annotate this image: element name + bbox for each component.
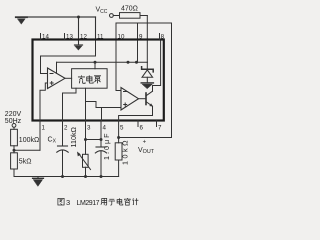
svg-text:4: 4 [103,125,107,132]
node pot ground [84,175,87,178]
node Vout [117,136,120,139]
wire pin11 riser [95,17,97,40]
wire pin1 down [39,121,41,151]
wire pin4 down [100,121,102,148]
svg-text:10kΩ: 10kΩ [121,138,130,165]
pin tick 14 [40,34,42,40]
char yu [109,199,115,205]
transistor Q1 [146,91,153,106]
node junction 100k/5k [13,149,16,152]
zener diode [142,62,154,82]
wire collector to pin8 inside right edge [153,41,161,91]
svg-text:50Hz: 50Hz [5,118,22,125]
svg-text:+: + [143,139,147,145]
node on supply wire [127,61,130,64]
resistor 10k [115,143,122,160]
wire pin9 internal drop [137,41,139,62]
pin tick 8 [159,34,161,40]
internal wire: pin11 drop to comparator minus line [41,41,96,74]
wire pin5 down [118,121,120,143]
ground arrow inside IC below pin 12 [75,45,83,50]
wire pin9 riser [137,23,139,40]
svg-text:14: 14 [42,34,49,41]
pin numbers top [42,34,165,41]
svg-text:5kΩ: 5kΩ [19,159,32,166]
svg-text:3: 3 [66,198,70,207]
svg-text:7: 7 [158,125,162,132]
op-amp U1 comparator [48,68,66,89]
svg-text:11: 11 [97,34,104,41]
resistor 470ohm [120,13,141,19]
pin tick 1..7 bottom: wires drawn separately; stub ticks for 6,7 [137,121,139,127]
resistor 100k [13,127,15,129]
wire emitter to pin5 [119,106,153,120]
ground arrow below zener [141,83,153,89]
wire pin4 riser [101,108,103,121]
node pin12 junction [77,16,80,19]
svg-text:12: 12 [80,34,87,41]
wire pin2 down to Cx [62,121,64,147]
text charge pump (CJK drawn) [78,75,101,83]
internal supply wire y62 [57,61,148,63]
wire outer right vertical [171,23,173,138]
svg-text:6: 6 [140,125,144,132]
svg-text:CX: CX [48,137,57,145]
capacitor 1.0uF [95,147,106,153]
svg-text:8: 8 [161,34,165,41]
char yong [101,198,107,205]
char rong [124,198,130,205]
wire link pins 3-4 [86,139,102,141]
node pin4 [100,138,103,141]
char chong [78,75,85,83]
svg-text:5: 5 [120,125,124,132]
charge pump box [72,69,108,89]
node Cx ground [61,175,64,178]
node 1.0uF ground [100,175,103,178]
pin numbers bottom [42,125,163,132]
ground symbol on rail [33,177,44,187]
node charge pump top [94,61,97,64]
ground rail [14,176,119,178]
char ji [132,198,138,205]
svg-text:1.0μF: 1.0μF [102,131,111,160]
wire 470 drop into IC to zener [146,16,148,63]
caption [58,198,138,207]
char dian2 [117,198,123,205]
pin tick 13 [64,34,66,40]
svg-text:110kΩ: 110kΩ [69,126,78,147]
wire pin12 down through IC edge [78,17,80,44]
svg-text:10: 10 [118,34,125,41]
220V source terminal [12,124,16,128]
svg-text:470Ω: 470Ω [121,6,138,13]
ground arrow top-left [16,17,27,24]
capacitor Cx [57,146,68,152]
wire Vout [119,137,172,139]
svg-text:13: 13 [66,34,73,41]
char dian [87,75,93,83]
node pin9 junction [135,61,138,64]
wire Vcc to resistor [113,15,119,17]
svg-text:100kΩ: 100kΩ [19,137,39,144]
Vcc terminal [110,14,114,18]
char tu [58,198,64,205]
char beng [94,76,101,84]
wire pin2 riser to charge pump bottom [63,88,77,120]
op-amp U2 [121,88,139,111]
svg-text:LM2917: LM2917 [77,200,100,207]
wire op-amp2 out to transistor base [139,98,147,100]
wire op-amp1 output to charge pump [65,77,72,79]
wire pin10 riser [115,23,117,40]
wire feedback top: pin10 to outer right [116,22,172,24]
wire pin10 drop to op-amp2 minus [116,41,121,91]
IC box LM2917 [33,40,164,121]
svg-text:3: 3 [87,125,91,132]
svg-text:1: 1 [42,125,46,132]
svg-text:9: 9 [139,34,143,41]
svg-text:2: 2 [64,125,68,132]
wire junction to pin1 [14,149,40,151]
wire resistor right to vertical drop [140,15,147,17]
wire top-left horizontal to pin 11 [21,16,96,18]
stub down to op-amp1 top [56,62,58,73]
wire pin1 riser to op-amp plus [40,83,48,121]
wire pump output to op-amp2 plus [86,102,122,108]
wire pin3 riser to charge pump bottom [85,88,87,120]
resistor 5k [11,153,18,169]
wire pin3 down [85,121,87,155]
node pin3/pin4 link [84,138,87,141]
potentiometer 110k [83,154,89,167]
